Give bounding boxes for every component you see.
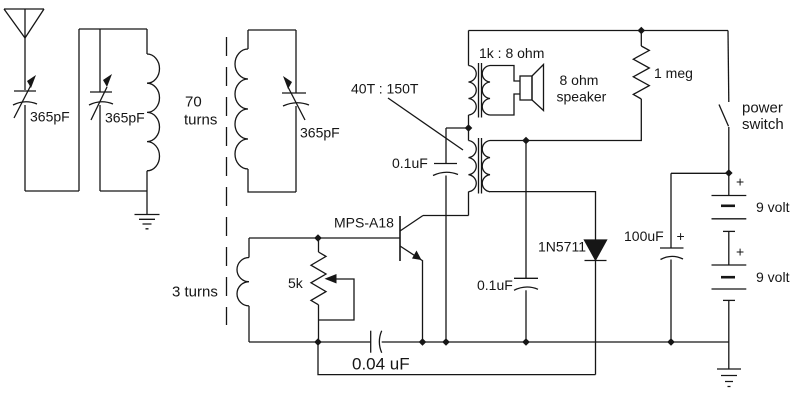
- node detector cap rail junction: [522, 338, 530, 346]
- resistor R2 1 meg: [633, 31, 649, 100]
- transformer T1 40T:150T left winding: [469, 128, 477, 192]
- transistor Q1 MPS-A18: [400, 216, 423, 262]
- svg-text:365pF: 365pF: [105, 110, 145, 126]
- antenna: [4, 9, 44, 38]
- svg-text:1k : 8 ohm: 1k : 8 ohm: [479, 45, 544, 61]
- svg-text:0.04 uF: 0.04 uF: [352, 355, 410, 374]
- wire 150T top to 1meg: [490, 99, 641, 141]
- capacitor C4 0.04 uF: [371, 331, 382, 353]
- label power switch: [742, 100, 784, 134]
- ground (battery): [717, 369, 741, 387]
- node 0.1uF rail junction: [442, 338, 450, 346]
- svg-text:5k: 5k: [288, 275, 304, 291]
- wire antenna to C1: [24, 38, 26, 90]
- svg-text:MPS-A18: MPS-A18: [334, 215, 394, 231]
- svg-text:365pF: 365pF: [300, 125, 340, 141]
- node emitter rail junction: [419, 338, 427, 346]
- svg-text:40T : 150T: 40T : 150T: [351, 81, 419, 97]
- capacitor C5 0.1uF (detector): [514, 141, 538, 343]
- node 150T top junction: [522, 137, 530, 145]
- battery B2 9 volt: [712, 231, 747, 289]
- wire C1 bottom: [24, 105, 26, 191]
- svg-text:+: +: [736, 244, 744, 260]
- wire emitter down: [422, 261, 424, 342]
- capacitor 0.1uF plates: [433, 164, 458, 176]
- wire bottom rail left: [249, 341, 371, 343]
- transformer T2 core: [479, 63, 482, 118]
- battery B1 9 volt: [712, 173, 747, 219]
- svg-text:9 volt: 9 volt: [756, 199, 790, 215]
- capacitor C6 100uF: [660, 173, 684, 342]
- transformer T2 8ohm winding: [482, 66, 520, 116]
- capacitor C1 365pF variable: [13, 75, 37, 118]
- inductor L3 3 turns: [237, 238, 249, 342]
- svg-text:100uF: 100uF: [624, 228, 664, 244]
- node top rail junction: [638, 27, 646, 35]
- label 70 turns: [184, 94, 217, 129]
- diode D1 1N5711: [585, 240, 607, 375]
- transformer T1 150T right winding: [482, 141, 490, 192]
- svg-text:0.1uF: 0.1uF: [477, 277, 513, 293]
- transformer T2 1k:8ohm left winding: [469, 31, 477, 129]
- wire base line: [249, 237, 400, 239]
- svg-text:1 meg: 1 meg: [654, 65, 693, 81]
- wire 150T bottom to diode: [490, 192, 596, 240]
- label 40T : 150T with leader: [351, 81, 463, 151]
- wire collector: [423, 215, 469, 217]
- wire C2 top: [99, 29, 101, 92]
- capacitor C3 365pF variable: [282, 76, 309, 120]
- potentiometer R1 5k: [311, 238, 326, 342]
- inductor L1 antenna coil: [147, 29, 160, 191]
- svg-text:3 turns: 3 turns: [172, 284, 218, 301]
- node battery plus junction: [725, 169, 733, 177]
- power switch SW1: [719, 31, 729, 174]
- wire C2 bottom: [99, 105, 101, 191]
- node T1 top junction: [465, 124, 473, 132]
- speaker SP1: [520, 65, 544, 111]
- wire top rail: [469, 30, 729, 32]
- dashed coupling line: [226, 37, 228, 325]
- svg-text:+: +: [736, 174, 744, 190]
- wire bottom segment B: [100, 190, 147, 192]
- wire top segment: [79, 28, 147, 30]
- svg-text:turns: turns: [184, 111, 217, 128]
- wire bottom rail right: [382, 341, 729, 343]
- svg-text:70: 70: [185, 94, 202, 111]
- svg-text:+: +: [677, 228, 685, 244]
- svg-text:365pF: 365pF: [30, 109, 70, 125]
- svg-text:speaker: speaker: [557, 89, 607, 105]
- wire feedback line: [318, 342, 596, 375]
- svg-text:0.1uF: 0.1uF: [392, 155, 428, 171]
- label 8 ohm speaker: [557, 72, 607, 105]
- wire left loop vertical: [78, 29, 80, 191]
- pot wiper arrow: [319, 274, 355, 320]
- node 100uF rail junction: [667, 338, 675, 346]
- svg-text:1N5711: 1N5711: [538, 239, 586, 255]
- svg-text:9 volt: 9 volt: [756, 269, 790, 285]
- inductor L2 70 turns: [235, 30, 296, 192]
- wire 0.1uF bottom to rail: [445, 176, 447, 343]
- svg-text:8 ohm: 8 ohm: [560, 72, 599, 88]
- node pot bottom junction: [314, 338, 322, 346]
- svg-text:power: power: [742, 100, 783, 117]
- wire 40T winding bottom stem: [468, 192, 470, 216]
- wire L2 right side top: [295, 30, 297, 93]
- wire battery bottom: [723, 300, 735, 369]
- capacitor 0.1uF (collector) top wire: [446, 128, 469, 163]
- node pot top junction: [314, 234, 322, 242]
- wire to 100uF: [671, 172, 729, 174]
- svg-text:switch: switch: [742, 116, 784, 133]
- wire bottom segment A: [25, 190, 79, 192]
- transformer T1 core: [479, 138, 482, 194]
- ground (left): [135, 191, 160, 229]
- wire L2 right side bottom: [295, 106, 297, 192]
- capacitor C2 365pF variable: [89, 74, 113, 120]
